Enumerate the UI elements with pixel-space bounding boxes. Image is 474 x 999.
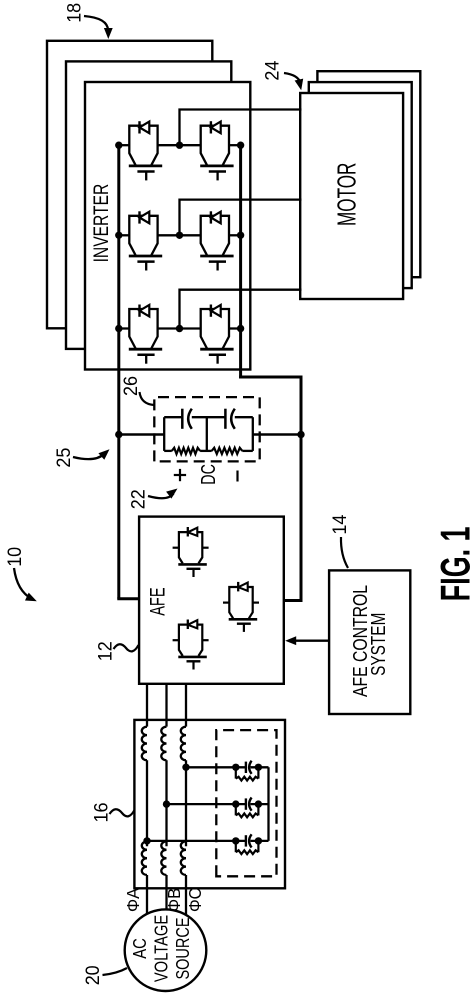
wire phase B line xyxy=(165,875,167,909)
IGBT QA3 (AFE) xyxy=(173,620,209,670)
inductor LB1 (source side) xyxy=(161,841,166,875)
svg-text:ΦA: ΦA xyxy=(123,888,143,912)
wire filter star point line xyxy=(267,767,269,841)
node leg 1 midpoint junction xyxy=(176,142,183,149)
wire leg 3 top lead xyxy=(119,327,130,329)
IGBT Q5 (upper, leg 3) xyxy=(129,305,162,364)
AFE control system 14 box xyxy=(329,570,410,714)
node DC link + rail junction xyxy=(115,431,122,438)
wire leg 2 middle lead xyxy=(158,234,201,236)
node leg 3 + rail junction xyxy=(115,325,122,332)
svg-text:22: 22 xyxy=(129,489,150,509)
wire DC link box bottom edge xyxy=(252,417,254,451)
wire DC link right edge segments xyxy=(164,416,182,418)
IGBT Q2 (lower, leg 1) xyxy=(200,121,233,180)
wire DC- jog xyxy=(239,376,302,379)
wire leg 1 bottom lead xyxy=(230,144,241,146)
label - (DC minus) xyxy=(236,471,238,482)
inverter stack back page xyxy=(47,41,212,329)
inverter stack middle page xyxy=(66,61,231,349)
svg-text:25: 25 xyxy=(54,448,75,468)
wire DC link box top edge xyxy=(163,417,165,451)
svg-text:VOLTAGE: VOLTAGE xyxy=(152,915,172,982)
node filter branch C lower xyxy=(255,764,262,771)
resistor RA (filter damping) xyxy=(235,841,237,852)
svg-text:AFE: AFE xyxy=(146,587,169,615)
node filter branch A lower xyxy=(255,837,262,844)
capacitor CB (filter) xyxy=(245,798,247,809)
node phase B tap junction xyxy=(163,800,170,807)
wire leg 1 top lead xyxy=(119,144,130,146)
wire phase A tap xyxy=(147,840,246,842)
label + (DC plus) xyxy=(179,469,181,481)
DC link dashed box 26 xyxy=(154,397,259,461)
capacitor C2 (lower DC link) xyxy=(224,409,227,429)
capacitor CC (filter) xyxy=(245,762,247,773)
node leg 2 midpoint junction xyxy=(176,232,183,239)
svg-text:14: 14 xyxy=(330,514,351,534)
wire phase output leg 2 to motor xyxy=(180,200,302,236)
wire phase C tap xyxy=(186,766,246,768)
wire DC link middle divider xyxy=(206,417,208,451)
svg-text:ΦC: ΦC xyxy=(185,888,205,912)
wire DC- rail rise into AFE xyxy=(283,599,303,602)
wire DC+ rail drop into AFE xyxy=(117,597,140,600)
svg-text:18: 18 xyxy=(65,3,86,23)
wire control arrow to AFE xyxy=(296,640,329,642)
node leg 1 + rail junction xyxy=(115,142,122,149)
wire DC link left edge segments xyxy=(164,450,172,452)
wire leg 1 middle lead xyxy=(158,144,201,146)
node filter branch A upper xyxy=(232,837,239,844)
svg-text:24: 24 xyxy=(262,60,283,80)
svg-text:16: 16 xyxy=(91,803,112,823)
svg-text:MOTOR: MOTOR xyxy=(332,163,362,226)
wire DC link bottom connection xyxy=(253,433,301,436)
capacitor C1 (upper DC link) xyxy=(181,409,184,429)
wire phase B tap xyxy=(167,803,246,805)
resistor R2 (lower balancing) xyxy=(212,448,243,454)
svg-text:SOURCE: SOURCE xyxy=(173,918,193,980)
IGBT QA1 (AFE) xyxy=(173,527,209,577)
AC voltage source 20 circle xyxy=(125,909,207,991)
node phase A tap junction xyxy=(143,837,150,844)
svg-text:DC: DC xyxy=(198,464,220,485)
node filter branch B upper xyxy=(232,800,239,807)
node leg 3 bottom bus junction xyxy=(237,325,244,332)
wire DC- rail xyxy=(300,377,303,601)
wire leg 2 bottom lead xyxy=(230,234,241,236)
node leg 2 + rail junction xyxy=(115,232,122,239)
svg-text:20: 20 xyxy=(83,965,104,985)
IGBT Q3 (upper, leg 2) xyxy=(129,211,162,270)
inductor LA1 (source side) xyxy=(142,841,147,875)
inductor LC1 (source side) xyxy=(181,841,186,875)
wire leg 3 middle lead xyxy=(158,327,201,329)
wire phase C line xyxy=(185,875,187,915)
node filter branch B lower xyxy=(255,800,262,807)
wire DC+ rail xyxy=(117,145,120,599)
node phase C tap junction xyxy=(182,764,189,771)
resistor R1 (upper balancing) xyxy=(172,448,200,454)
IGBT QA2 (AFE) xyxy=(223,582,259,632)
inductor LC2 (AFE side) xyxy=(181,727,186,761)
wire leg 3 bottom lead xyxy=(230,327,241,329)
AFE 12 box xyxy=(139,517,284,684)
motor 24 main box xyxy=(300,93,403,299)
IGBT Q4 (lower, leg 2) xyxy=(200,211,233,270)
node DC link - rail junction xyxy=(297,431,304,438)
node filter branch C upper xyxy=(232,764,239,771)
resistor RC (filter damping) xyxy=(235,767,237,778)
node leg 1 bottom bus junction xyxy=(237,142,244,149)
wire phase output leg 3 to motor xyxy=(180,290,302,329)
svg-text:12: 12 xyxy=(96,641,117,661)
node leg 2 bottom bus junction xyxy=(237,232,244,239)
capacitor CA (filter) xyxy=(245,835,247,846)
filter 16 box xyxy=(134,720,285,888)
node leg 3 midpoint junction xyxy=(176,325,183,332)
svg-text:INVERTER: INVERTER xyxy=(90,184,113,263)
inductor LA2 (AFE side) xyxy=(142,727,147,761)
filter dashed box xyxy=(216,730,276,876)
svg-text:AC: AC xyxy=(130,938,150,959)
IGBT Q6 (lower, leg 3) xyxy=(200,305,233,364)
wire phase A line xyxy=(146,875,148,914)
inductor LB2 (AFE side) xyxy=(161,727,166,761)
wire phase output leg 1 to motor xyxy=(180,110,302,146)
motor stack back page xyxy=(317,71,420,277)
svg-text:SYSTEM: SYSTEM xyxy=(368,613,390,676)
wire DC link top connection xyxy=(119,433,164,436)
wire leg 2 top lead xyxy=(119,234,130,236)
motor stack middle page xyxy=(309,82,412,288)
resistor RB (filter damping) xyxy=(235,804,237,815)
svg-text:10: 10 xyxy=(5,547,26,567)
svg-text:FIG. 1: FIG. 1 xyxy=(432,527,474,602)
IGBT Q1 (upper, leg 1) xyxy=(129,121,162,180)
inverter 18 main box xyxy=(85,82,250,370)
wire inverter bottom bus xyxy=(239,145,242,378)
